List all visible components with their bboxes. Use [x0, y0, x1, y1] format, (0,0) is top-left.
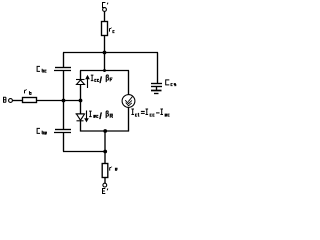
svg-text:=: = — [141, 110, 145, 117]
svg-text:β: β — [105, 108, 109, 118]
svg-text:β: β — [105, 72, 109, 82]
svg-text:/: / — [99, 75, 102, 86]
svg-text:/: / — [99, 111, 102, 122]
svg-text:−: − — [156, 110, 160, 117]
